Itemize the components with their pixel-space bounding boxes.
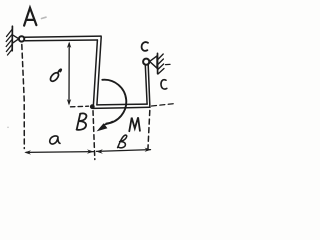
joint dot B <box>90 104 95 109</box>
dashed vertical from pin A down <box>22 45 25 149</box>
dimension line в (bottom right) <box>97 150 151 152</box>
support wall at C <box>157 53 159 73</box>
dashed vertical below right corner <box>148 111 150 151</box>
arrowhead down <box>67 99 71 106</box>
bar A-corner: top line <box>25 36 101 37</box>
label M <box>129 117 140 131</box>
hatching at A <box>6 30 12 56</box>
pin circle A <box>19 36 24 41</box>
vertical bar corner-B: outer(right) line <box>97 36 101 105</box>
support bracket (triangle) at C <box>150 56 157 68</box>
dimension label c <box>161 80 167 89</box>
label B <box>77 113 87 129</box>
arrowhead left <box>24 150 31 154</box>
dashed extension right of C pin <box>166 63 173 65</box>
paper smudge <box>42 17 47 18</box>
dimension line a (bottom left) <box>26 151 94 154</box>
moment arrowhead <box>97 123 108 131</box>
support wall at A <box>11 26 13 51</box>
moment arrowhead barb <box>105 122 113 125</box>
bar A-corner: bottom line <box>25 39 98 42</box>
hatching at C <box>158 54 164 74</box>
vertical bar right-C: outer(right) line <box>148 65 150 108</box>
rotated label a <box>49 69 61 83</box>
moment arc <box>102 80 126 124</box>
label A <box>24 8 36 26</box>
pin circle C <box>143 59 149 65</box>
arrowhead right <box>145 148 152 152</box>
arrowhead right at junction <box>87 149 94 153</box>
vertical bar corner-B: inner(left) line <box>93 40 97 108</box>
support bracket (triangle) at A <box>13 35 19 43</box>
bar B-right: top line <box>97 103 147 106</box>
arrowhead left at junction <box>96 149 103 153</box>
vertical dimension line a <box>68 44 70 104</box>
arrowhead up <box>67 42 71 49</box>
label a bottom <box>50 136 60 144</box>
label c at support C <box>142 42 148 51</box>
dashed link from dim line to B <box>71 105 89 108</box>
label в <box>118 135 127 148</box>
dashed vertical below B <box>93 111 95 160</box>
bar B-right: bottom line <box>93 107 150 108</box>
vertical bar right-C: inner(left) line <box>145 65 147 104</box>
dashed extension right of bar level <box>152 104 175 106</box>
paper dot <box>7 127 9 129</box>
